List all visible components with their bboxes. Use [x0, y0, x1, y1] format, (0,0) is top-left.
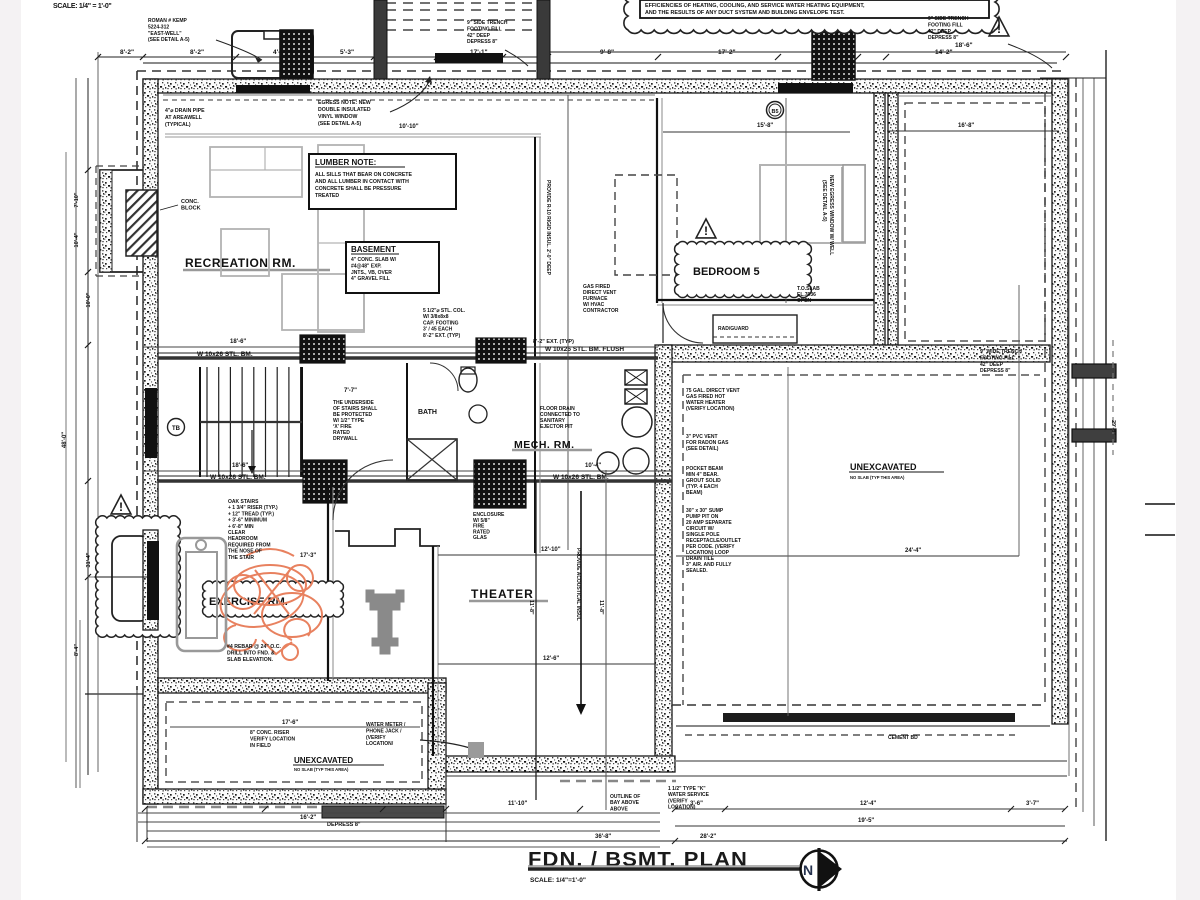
svg-text:(VERIFY: (VERIFY: [668, 798, 688, 804]
svg-text:!: !: [704, 224, 708, 238]
top dimension line y52: [98, 56, 548, 58]
stair treads: [206, 367, 208, 477]
couch sectional gray: [210, 147, 302, 197]
svg-text:10'-10": 10'-10": [399, 124, 419, 130]
svg-text:RECREATION RM.: RECREATION RM.: [185, 256, 296, 270]
svg-text:36'-8": 36'-8": [595, 834, 611, 840]
unexc vertical dim ext x1019: [1018, 285, 1020, 556]
svg-text:42" DEEP: 42" DEEP: [980, 362, 1004, 368]
closet dashed rect: [615, 175, 677, 275]
right dimension dashed line x1076: [1075, 78, 1077, 810]
svg-text:BEDROOM 5: BEDROOM 5: [693, 266, 760, 278]
window well checker top-left: [280, 30, 313, 78]
beam2 pier checker A: [303, 460, 347, 503]
svg-text:#4@48" EXP.: #4@48" EXP.: [351, 263, 382, 269]
svg-text:DRYWALL: DRYWALL: [333, 436, 358, 442]
line of floor above horizontal: [165, 133, 541, 135]
svg-text:NO SLAB (TYP THIS AREA): NO SLAB (TYP THIS AREA): [850, 475, 905, 480]
svg-text:W 10x26 STL. BM.: W 10x26 STL. BM.: [197, 351, 253, 358]
floor drain X box 2: [625, 389, 647, 404]
bay footing dashes: [96, 165, 143, 167]
warning triangle bedroom: [696, 219, 716, 238]
bath west wall: [406, 363, 408, 480]
footing dashed right inner: [1044, 93, 1046, 705]
svg-text:4" CONC. SLAB W/: 4" CONC. SLAB W/: [351, 257, 397, 263]
exterior wall left: [143, 79, 158, 804]
right window well 1: [1072, 364, 1116, 378]
bottom ticks: [142, 806, 148, 812]
window lintel bar left: [236, 85, 310, 93]
bedroom garage wall east: [874, 93, 885, 345]
svg-text:10'-0": 10'-0": [86, 292, 92, 307]
svg-text:3' / 45 EACH: 3' / 45 EACH: [423, 327, 453, 333]
porch inner dashed rect: [166, 702, 422, 782]
svg-text:14'-2": 14'-2": [935, 49, 953, 56]
bed: [760, 165, 865, 243]
svg-text:(SEE DETAIL A-5): (SEE DETAIL A-5): [318, 121, 361, 127]
svg-text:15'-8": 15'-8": [757, 123, 773, 129]
mech rm west wall: [534, 363, 536, 553]
svg-text:4"⌀ DRAIN PIPE: 4"⌀ DRAIN PIPE: [165, 108, 205, 114]
svg-text:+ 3'-6" MINIMUM: + 3'-6" MINIMUM: [228, 518, 267, 524]
bedroom cloud: [675, 241, 812, 297]
svg-text:16'-8": 16'-8": [958, 123, 974, 129]
footing line y761 right: [675, 760, 1067, 762]
wall inner dashed top: [163, 99, 655, 101]
theater dim line 1: [438, 554, 655, 556]
bedroom door arc: [663, 303, 703, 343]
svg-text:W 10x26 STL. BM.: W 10x26 STL. BM.: [210, 474, 266, 481]
svg-text:1 1/2" TYPE "K": 1 1/2" TYPE "K": [668, 786, 706, 792]
theater vertical line x536: [535, 480, 537, 800]
theater dim line 2: [438, 663, 655, 665]
wall line x537 vertical: [534, 137, 536, 358]
svg-text:(TYPICAL): (TYPICAL): [165, 122, 191, 128]
garage door lintel bar: [778, 83, 853, 93]
svg-text:4" GRAVEL FILL: 4" GRAVEL FILL: [351, 276, 390, 282]
north arrow: [801, 851, 838, 888]
window tag circle B5: [767, 102, 784, 119]
svg-text:UNEXCAVATED: UNEXCAVATED: [850, 462, 917, 472]
unexcavated west wall: [655, 345, 672, 760]
cement board dashed line: [685, 734, 1015, 736]
page right margin strip: [1176, 0, 1200, 900]
bottom dim lines left group: [138, 812, 660, 814]
water meter leader arrow: [420, 740, 470, 748]
page left margin strip: [0, 0, 21, 900]
svg-text:24'-4": 24'-4": [905, 548, 921, 554]
svg-text:!: !: [119, 500, 123, 514]
lumber note box: [309, 154, 456, 209]
bath door arc: [430, 363, 458, 391]
svg-text:8" CONC. RISER: 8" CONC. RISER: [250, 730, 290, 736]
garage window well checker: [812, 30, 855, 80]
gray treadmill: [177, 538, 226, 651]
svg-text:TB: TB: [172, 426, 181, 432]
svg-text:ABOVE: ABOVE: [610, 806, 628, 812]
long leader arrow theater: [580, 491, 582, 705]
depress bar: [322, 806, 444, 818]
svg-text:18'-6": 18'-6": [232, 463, 248, 469]
svg-text:EGRESS NOTE: NEW: EGRESS NOTE: NEW: [318, 100, 371, 106]
porch right wall: [428, 683, 446, 789]
svg-text:VINYL WINDOW: VINYL WINDOW: [318, 114, 357, 120]
wall segment at well: [143, 530, 158, 630]
svg-text:(SEE DETAIL): (SEE DETAIL): [686, 446, 719, 452]
svg-text:48'-0": 48'-0": [62, 432, 68, 448]
svg-text:CAP. FOOTING: CAP. FOOTING: [423, 320, 459, 326]
svg-text:CONCRETE SHALL BE PRESSURE: CONCRETE SHALL BE PRESSURE: [315, 186, 402, 192]
areawell top-left outline: [232, 31, 313, 78]
unexc footing dashed left: [682, 375, 684, 705]
bay outline left: [100, 170, 143, 272]
svg-text:EFFICIENCIES OF HEATING, COOLI: EFFICIENCIES OF HEATING, COOLING, AND SE…: [645, 3, 865, 9]
svg-text:NO SLAB (TYP THIS AREA): NO SLAB (TYP THIS AREA): [294, 767, 349, 772]
right margin mark 1: [1145, 503, 1175, 505]
svg-text:BAY ABOVE: BAY ABOVE: [610, 800, 640, 806]
dimension ticks top: [95, 54, 101, 60]
sump circle 1: [597, 452, 619, 474]
svg-text:LOCATION/: LOCATION/: [366, 741, 394, 747]
svg-text:(SEE DETAIL A-5): (SEE DETAIL A-5): [821, 180, 827, 222]
svg-text:16'-2": 16'-2": [300, 815, 316, 821]
svg-text:CONTRACTOR: CONTRACTOR: [583, 308, 619, 314]
revision cloud top: [624, 0, 999, 33]
left dimension line x88: [87, 78, 89, 775]
svg-text:11'-10": 11'-10": [508, 801, 527, 807]
garage foundation wall west: [888, 93, 898, 345]
svg-text:OAK STAIRS: OAK STAIRS: [228, 499, 259, 505]
svg-text:WATER METER /: WATER METER /: [366, 722, 406, 728]
svg-text:DOUBLE INSULATED: DOUBLE INSULATED: [318, 107, 371, 113]
svg-text:NEW EGRESS WINDOW W/ WELL: NEW EGRESS WINDOW W/ WELL: [828, 175, 834, 255]
theater vertical line x606: [605, 470, 607, 810]
porch column right: [537, 0, 550, 79]
right dimension line x1083: [1082, 78, 1084, 812]
svg-text:28'-2": 28'-2": [700, 834, 716, 840]
svg-text:19'-5": 19'-5": [858, 818, 874, 824]
svg-text:17'-3": 17'-3": [300, 553, 316, 559]
unexc vertical thin line: [787, 367, 789, 716]
svg-text:SLAB ELEVATION.: SLAB ELEVATION.: [227, 657, 273, 663]
svg-text:12'-6": 12'-6": [543, 656, 559, 662]
unexc footing dashed top: [683, 374, 1040, 376]
svg-text:BLOCK: BLOCK: [181, 206, 201, 212]
svg-text:7'-7": 7'-7": [344, 388, 357, 394]
right tick line top y78: [1040, 77, 1106, 79]
title underline: [528, 865, 799, 867]
svg-text:9'-8": 9'-8": [600, 49, 614, 56]
areawell top-left step: [264, 31, 280, 39]
note box in cloud: [640, 0, 989, 18]
svg-text:N: N: [803, 862, 813, 878]
svg-text:OPEN: OPEN: [797, 298, 812, 304]
svg-text:12'-10": 12'-10": [541, 547, 561, 553]
top porch edge line y63: [143, 62, 1057, 64]
garage south wall: [660, 345, 1050, 362]
stair up arrow: [251, 430, 253, 470]
steel beam 1 line: [158, 356, 658, 360]
svg-text:12'-4": 12'-4": [860, 801, 876, 807]
svg-text:5'-3": 5'-3": [340, 49, 354, 56]
svg-text:LOCATION): LOCATION): [668, 805, 696, 811]
bottom extra line y847: [147, 846, 660, 848]
svg-text:W/ 3/8x8x8: W/ 3/8x8x8: [423, 314, 449, 320]
garage inner face line: [898, 95, 1052, 97]
svg-text:17'-6": 17'-6": [282, 720, 298, 726]
svg-text:W 10x26 STL. BM. FLUSH: W 10x26 STL. BM. FLUSH: [545, 346, 624, 353]
unexcavated south boundary: [672, 704, 1045, 706]
svg-text:HEADROOM: HEADROOM: [228, 536, 258, 542]
svg-text:GLAS: GLAS: [473, 535, 488, 541]
svg-text:+ 1 3/4" RISER (TYP.): + 1 3/4" RISER (TYP.): [228, 505, 278, 511]
svg-text:(VERIFY: (VERIFY: [366, 735, 386, 741]
beam2 dim line: [143, 470, 672, 472]
leader conc block: [160, 205, 178, 210]
bottom dim right row1: [675, 808, 1065, 810]
svg-text:5 1/2"⌀ STL. COL.: 5 1/2"⌀ STL. COL.: [423, 308, 466, 314]
svg-text:11'-8": 11'-8": [598, 600, 604, 615]
svg-text:18'-6": 18'-6": [955, 42, 973, 49]
stoop black bar: [435, 53, 503, 63]
warning triangle left: [111, 495, 131, 514]
svg-text:DEPRESS 8": DEPRESS 8": [980, 368, 1011, 374]
svg-text:FOOTING FILL: FOOTING FILL: [980, 355, 1015, 361]
svg-text:JNTS., VB, OVER: JNTS., VB, OVER: [351, 270, 392, 276]
steel beam 2 line: [158, 479, 672, 483]
svg-text:CEMENT BD: CEMENT BD: [888, 735, 918, 741]
media wall gray: [318, 145, 364, 332]
svg-text:DEPRESS 8": DEPRESS 8": [327, 822, 361, 828]
svg-text:AT AREAWELL: AT AREAWELL: [165, 115, 203, 121]
right margin mark 2: [1145, 534, 1175, 536]
sump circle 2: [623, 448, 649, 474]
water heater circle: [622, 407, 652, 437]
svg-text:FOOTING FILL: FOOTING FILL: [467, 26, 502, 32]
svg-text:AND ALL LUMBER IN CONTACT WITH: AND ALL LUMBER IN CONTACT WITH: [315, 179, 409, 185]
leader to well: [216, 40, 262, 60]
svg-text:3'-7": 3'-7": [1026, 801, 1039, 807]
beam2 pier checker B / enclosure: [474, 460, 526, 508]
svg-text:5224-312: 5224-312: [148, 24, 169, 30]
svg-text:UNEXCAVATED: UNEXCAVATED: [294, 756, 353, 765]
svg-text:W 10x26 STL. BM.: W 10x26 STL. BM.: [553, 474, 609, 481]
exercise east wall: [327, 487, 329, 681]
svg-text:9" WIDE TRENCH: 9" WIDE TRENCH: [980, 349, 1022, 355]
svg-text:10'-4": 10'-4": [74, 232, 80, 247]
leader top egress: [390, 80, 430, 112]
porch column left: [374, 0, 387, 79]
svg-text:B5: B5: [771, 109, 778, 115]
left wall window black 2: [147, 541, 159, 620]
svg-text:+ 6'-8" MIN: + 6'-8" MIN: [228, 524, 254, 530]
garage dim line: [887, 130, 1059, 132]
svg-text:FOOTING FILL: FOOTING FILL: [928, 22, 963, 28]
right dimension line x1094: [1093, 78, 1095, 826]
bedroom south wall: [657, 299, 874, 301]
porch north wall: [158, 678, 446, 693]
svg-text:SEALED.: SEALED.: [686, 568, 708, 574]
svg-text:THEATER: THEATER: [471, 587, 534, 601]
bedroom dim line: [663, 131, 850, 133]
svg-text:WATER SERVICE: WATER SERVICE: [668, 792, 710, 798]
svg-text:ALL SILLS THAT BEAR ON CONCRET: ALL SILLS THAT BEAR ON CONCRETE: [315, 172, 412, 178]
svg-text:PHONE JACK /: PHONE JACK /: [366, 728, 402, 734]
orange exercise equipment: [216, 549, 322, 660]
svg-text:(SEE DETAIL A-5): (SEE DETAIL A-5): [148, 37, 190, 43]
plumbing line x568: [567, 95, 569, 550]
window well rounded rect left: [112, 536, 149, 621]
svg-text:42" DEEP: 42" DEEP: [467, 33, 491, 39]
wall inner face line top: [163, 94, 655, 96]
right dimension line x1106: [1105, 50, 1107, 841]
svg-text:+ 12" TREAD (TYP.): + 12" TREAD (TYP.): [228, 511, 274, 517]
bottom dim right row2: [675, 825, 1065, 827]
svg-text:11'-8": 11'-8": [528, 600, 534, 615]
left dimension line x98: [97, 52, 99, 772]
svg-text:PROVIDE ACOUSTICAL INSUL: PROVIDE ACOUSTICAL INSUL: [575, 548, 581, 621]
svg-text:AND THE RESULTS OF ANY DUCT SY: AND THE RESULTS OF ANY DUCT SYSTEM AND B…: [645, 10, 845, 16]
bedroom west wall: [656, 98, 658, 303]
basement note box: [346, 242, 439, 293]
svg-text:DRILL INTO FND. &: DRILL INTO FND. &: [227, 651, 275, 657]
svg-text:9" SIDE TRENCH: 9" SIDE TRENCH: [467, 20, 508, 26]
svg-text:8'-4": 8'-4": [74, 644, 80, 656]
unexcavated south CMU bar: [723, 713, 1015, 722]
beam1 dim line: [143, 346, 658, 348]
dim line through well: [94, 576, 147, 578]
porch corner ext line: [445, 772, 447, 842]
svg-text:42" DEEP: 42" DEEP: [928, 29, 952, 35]
stair center rail: [200, 421, 302, 423]
chimney concrete block hatch: [126, 190, 157, 256]
bath sink circle: [469, 405, 487, 423]
svg-text:REQUIRED FROM: REQUIRED FROM: [228, 542, 271, 548]
furnace closet: [713, 315, 797, 343]
right footing line x1069: [1068, 78, 1070, 776]
svg-text:17'-2": 17'-2": [718, 49, 736, 56]
footing dashed left of house: [136, 71, 138, 690]
right window well 2: [1072, 429, 1116, 442]
svg-text:!: !: [997, 22, 1001, 36]
svg-text:BATH: BATH: [418, 409, 437, 416]
svg-text:#4 REBAR @ 24" O.C.: #4 REBAR @ 24" O.C.: [227, 644, 281, 650]
bedroom window east wall: [843, 165, 865, 242]
gray machine art: [366, 590, 404, 654]
svg-text:BASEMENT: BASEMENT: [351, 245, 396, 254]
garage footing dashed rect: [905, 103, 1045, 341]
svg-text:"EAST-WELL": "EAST-WELL": [148, 31, 182, 37]
floor drain X box 1: [625, 370, 647, 385]
svg-text:CONC.: CONC.: [181, 199, 199, 205]
stair circle tag TB: [168, 419, 185, 436]
top footing dashed line y71: [137, 70, 1062, 72]
bath shower box: [407, 439, 457, 480]
left wall window black 1: [145, 388, 157, 458]
svg-text:8'-2": 8'-2": [190, 49, 204, 56]
svg-text:THE STAIR: THE STAIR: [228, 555, 254, 561]
svg-text:8'-2": 8'-2": [120, 49, 134, 56]
deck dashed lines top: [386, 2, 537, 4]
beam1 pier checker B: [476, 338, 526, 363]
svg-text:7'-10": 7'-10": [74, 192, 80, 207]
exterior wall right: [1052, 79, 1068, 724]
theater north wall jog: [335, 529, 440, 546]
svg-text:EJECTOR PIT: EJECTOR PIT: [540, 424, 573, 430]
left ticks: [85, 167, 91, 173]
svg-text:THE NOSE OF: THE NOSE OF: [228, 549, 262, 555]
svg-text:DEPRESS 8": DEPRESS 8": [467, 39, 498, 45]
svg-text:RAD/GUARD: RAD/GUARD: [718, 326, 749, 332]
exercise door arc: [333, 460, 393, 520]
svg-text:18'-6": 18'-6": [230, 339, 246, 345]
theater west wall: [432, 546, 434, 756]
svg-text:LUMBER NOTE:: LUMBER NOTE:: [315, 158, 376, 167]
svg-text:SCALE: 1/4"=1'-0": SCALE: 1/4"=1'-0": [530, 877, 586, 884]
svg-text:TREATED: TREATED: [315, 193, 339, 199]
warning triangle top-right: [989, 17, 1009, 36]
chair gray: [221, 229, 269, 276]
svg-text:8'-2" EXT. (TYP): 8'-2" EXT. (TYP): [423, 333, 461, 339]
well edge dashed: [1112, 340, 1114, 455]
beam1 pier checker A: [300, 335, 345, 363]
svg-text:IN FIELD: IN FIELD: [250, 743, 271, 749]
svg-text:29'-8": 29'-8": [1110, 420, 1116, 435]
svg-text:BEAM): BEAM): [686, 490, 703, 496]
bottom dim overall line: [147, 840, 1067, 842]
svg-text:CLEAR: CLEAR: [228, 530, 246, 536]
left ext line to bottom dims: [136, 690, 138, 842]
tick line left y694: [85, 693, 143, 695]
cabinet gray: [282, 274, 364, 330]
svg-text:(VERIFY LOCATION): (VERIFY LOCATION): [686, 406, 735, 412]
unexc dim 24-4: [676, 555, 1019, 557]
svg-text:9" SIDE TRENCH: 9" SIDE TRENCH: [928, 16, 969, 22]
left dimension line x66: [65, 152, 67, 762]
toilet: [459, 368, 477, 392]
bay outline above dashed: [560, 780, 676, 783]
svg-text:ROMAN # KEMP: ROMAN # KEMP: [148, 18, 188, 24]
gray pier by porch: [468, 742, 484, 758]
unexcavated footing line bottom: [446, 775, 1067, 777]
porch bottom wall: [143, 789, 446, 804]
theater south wall: [428, 756, 675, 772]
svg-text:PROVIDE R-10 RIGID INSUL. 2'-0: PROVIDE R-10 RIGID INSUL. 2'-0" DEEP: [545, 180, 551, 276]
revision cloud left window well: [96, 516, 181, 638]
svg-text:SCALE: 1/4" = 1'-0": SCALE: 1/4" = 1'-0": [53, 3, 111, 10]
exterior wall top: [143, 79, 1057, 93]
svg-text:OUTLINE OF: OUTLINE OF: [610, 794, 640, 800]
bay stipple band: [100, 170, 112, 272]
svg-text:31'-4": 31'-4": [86, 552, 92, 567]
exercise cloud label: [203, 581, 344, 617]
bedroom vertical ext line: [785, 98, 787, 303]
left dimension line x76: [75, 78, 77, 788]
svg-text:DEPRESS 8": DEPRESS 8": [928, 35, 959, 41]
porch gray dashed bottom: [147, 806, 320, 809]
svg-text:VERIFY LOCATION: VERIFY LOCATION: [250, 736, 295, 742]
